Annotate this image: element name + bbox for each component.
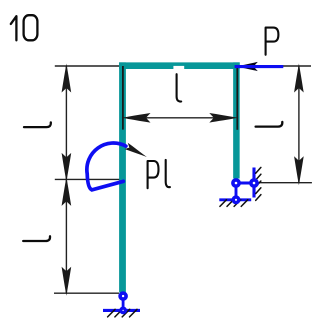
arrow down, left dim bottom — [62, 267, 72, 296]
extension line over right column — [236, 66, 238, 130]
dimension line horizontal (span l) — [124, 117, 236, 119]
extension line mid-left (moment level) — [55, 178, 122, 180]
dimension line left (x=66.4) — [65, 66, 67, 293]
force P arrowhead (black, under blue shaft) — [234, 62, 257, 71]
right support: wall hatching — [256, 167, 261, 200]
extension line top-right — [270, 65, 311, 67]
pin support bottom: hinge circle — [120, 293, 126, 299]
right support: ground bar — [219, 198, 251, 201]
extension line top-left — [55, 65, 123, 67]
white notch in beam under label l — [173, 66, 184, 70]
arrow up, right dim top — [294, 64, 304, 93]
label l (right, rotated) — [256, 122, 283, 127]
moment Pl arrowhead — [124, 143, 148, 160]
label Pl (moment value) — [148, 160, 170, 188]
label l (left lower, rotated) — [23, 236, 50, 241]
pin support bottom: ground bar — [103, 309, 140, 312]
arrow down, left dim at mid line — [62, 153, 72, 182]
right support: horizontal link — [236, 182, 254, 185]
label l (left upper, rotated) — [24, 122, 51, 127]
pin support bottom: ground hatching — [108, 309, 137, 317]
arrow left, horizontal dim — [122, 113, 151, 123]
right support: hinge at wall — [251, 180, 257, 186]
arrow down, right dim bottom — [294, 156, 304, 185]
pin support bottom: lower hinge circle — [121, 308, 126, 313]
arrow up, left dim top — [62, 64, 72, 93]
right support: wall bar — [252, 168, 255, 198]
pin support bottom: link — [122, 296, 125, 310]
extension line bottom-right (support level) — [257, 182, 312, 184]
frame right column — [233, 62, 240, 178]
arrow right, horizontal dim — [209, 113, 238, 123]
label P (force) — [266, 28, 279, 55]
label l (horizontal span) — [177, 74, 182, 101]
frame left column — [119, 62, 126, 292]
right support: ground hatching — [220, 200, 248, 207]
dimension line right (x=298.9) — [298, 66, 300, 183]
frame top beam — [119, 62, 240, 69]
extension line bottom-left (support level) — [54, 292, 119, 294]
right support: hinge at column base — [233, 180, 239, 186]
label 10 (problem number) — [11, 15, 38, 40]
moment Pl arc (blue) — [87, 143, 126, 190]
right support: vertical link — [235, 183, 238, 200]
arrow up, left dim at mid line — [62, 177, 72, 206]
right support: hinge at ground — [233, 197, 239, 203]
force P shaft (blue) — [235, 65, 284, 68]
extension line over left column — [122, 66, 124, 130]
